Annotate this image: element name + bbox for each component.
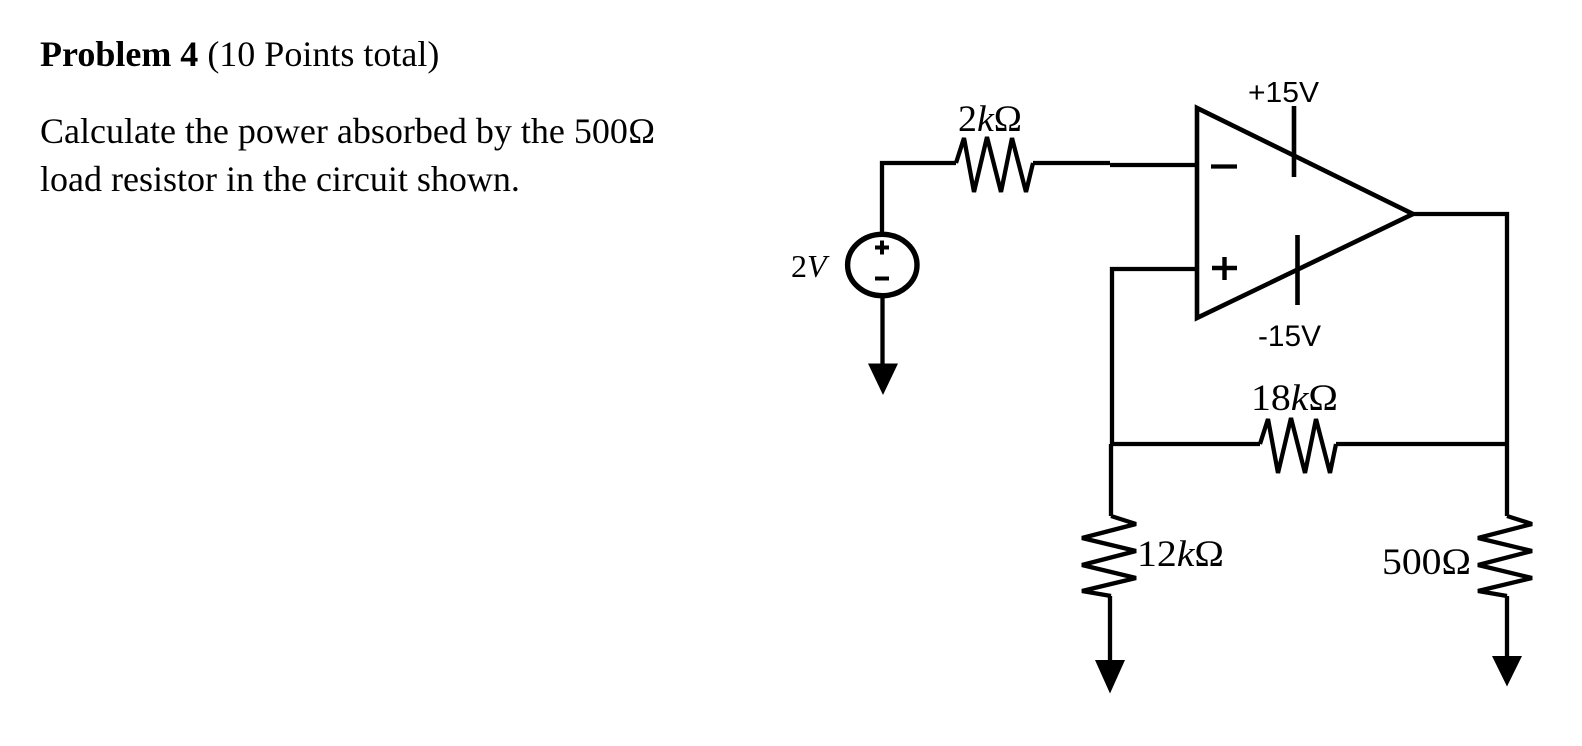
ground arrow below source: stem — [880, 296, 884, 366]
negative supply rail line — [1295, 235, 1300, 305]
body text — [40, 107, 705, 203]
wire: non-inverting input stub left and down to node A — [1112, 269, 1196, 444]
wire: resistor 2k right to op-amp inverting input — [1033, 161, 1110, 165]
svg-text:2kΩ: 2kΩ — [958, 99, 1022, 140]
svg-text:18kΩ: 18kΩ — [1251, 378, 1338, 419]
ground arrow below 500: head — [1492, 656, 1522, 687]
wire: source top corner to resistor 2k left — [882, 163, 956, 233]
op-amp non-inverting input plus marker — [1212, 257, 1237, 280]
positive supply rail line — [1292, 106, 1297, 177]
ground arrow below 12k: stem — [1108, 596, 1112, 663]
svg-text:2V: 2V — [791, 248, 830, 284]
resistor R4 500 load vertical zigzag — [1478, 516, 1532, 596]
voltage source plus sign — [875, 241, 889, 255]
svg-text:12kΩ: 12kΩ — [1137, 534, 1224, 575]
svg-text:-15V: -15V — [1258, 320, 1321, 353]
feedback wire: node A to resistor 18k left — [1112, 442, 1260, 446]
feedback wire: resistor 18k right to output node B — [1336, 442, 1507, 446]
resistor R3 12k vertical zigzag — [1082, 516, 1136, 596]
svg-text:500Ω: 500Ω — [1382, 542, 1471, 583]
voltage source V1 circle — [848, 234, 917, 295]
resistor R2 18k zigzag — [1260, 418, 1336, 473]
resistor R1 2k zigzag — [956, 137, 1033, 192]
svg-text:+15V: +15V — [1248, 77, 1320, 109]
ground arrow below 500: stem — [1505, 596, 1509, 659]
wire: op-amp output right and down to load — [1413, 214, 1507, 516]
wire: node A down to resistor 12k — [1109, 444, 1113, 516]
ground arrow below 12k: head — [1095, 660, 1125, 694]
ground arrow below source: head — [868, 364, 898, 396]
wire: stub into inverting input — [1110, 163, 1196, 167]
title: Problem 4 (10 Points total) — [40, 33, 439, 75]
op-amp inverting input minus marker — [1211, 164, 1237, 168]
op-amp U1 triangle — [1197, 108, 1413, 318]
voltage source minus sign — [875, 277, 889, 281]
